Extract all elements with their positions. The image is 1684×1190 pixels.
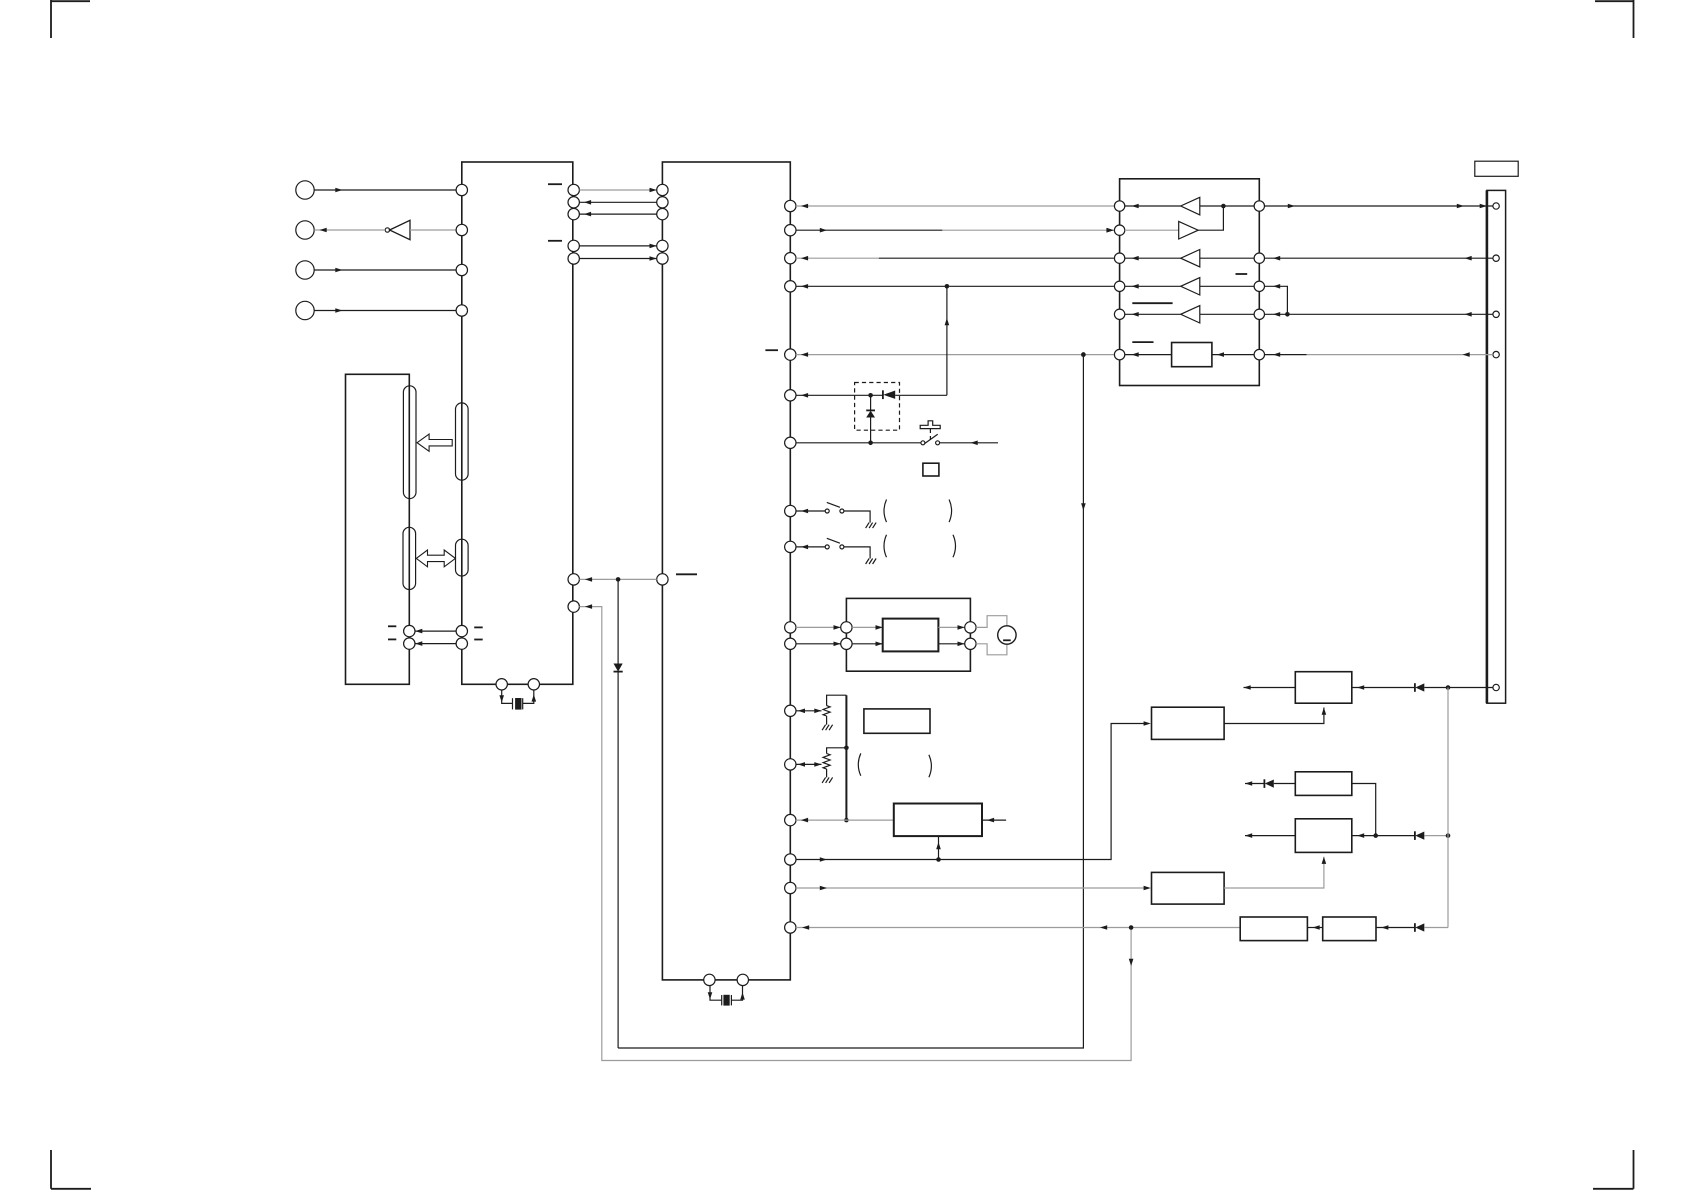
IC1 pin right 6 xyxy=(568,574,579,585)
wire row Q xyxy=(796,886,1151,891)
B4-B5 wire xyxy=(1307,925,1322,930)
diode D1 xyxy=(883,390,947,399)
IC2 xyxy=(662,162,790,980)
crop mark bottom-left xyxy=(51,1150,91,1189)
IC2 pin right 14 xyxy=(785,814,796,825)
IC2 pin right 15 xyxy=(785,854,796,865)
box C1 xyxy=(1152,707,1225,739)
RV1 top wire xyxy=(827,695,847,705)
cap mark left a xyxy=(388,625,396,627)
C1 out wire xyxy=(1224,708,1326,724)
bus pill A1 xyxy=(403,386,416,499)
connector pin J2 xyxy=(296,221,314,239)
IC3 pin L3 xyxy=(1114,253,1124,263)
block arrow double xyxy=(416,550,455,567)
wire row C to IC3 xyxy=(796,256,1114,261)
wire cap row2 xyxy=(415,641,456,646)
pin label mark long xyxy=(1132,302,1172,304)
wire cap row1 xyxy=(415,629,456,634)
switch S2 xyxy=(825,502,844,513)
bus pill B1 xyxy=(456,403,469,480)
wire J1 to IC1 xyxy=(314,188,456,193)
wire inverter to J2 xyxy=(314,228,385,233)
connector pin J1 xyxy=(296,181,314,199)
IC2 pin right 1 xyxy=(785,200,796,211)
wire R4 to CN2 xyxy=(1265,312,1493,317)
motor box pin in 1 xyxy=(841,622,852,633)
wire row G xyxy=(796,393,883,398)
IC2 pin right 6 xyxy=(785,390,796,401)
IC3 pin L5 xyxy=(1114,309,1124,319)
motor M1 xyxy=(998,626,1016,644)
IC3 pin L6 xyxy=(1114,349,1124,359)
switch S1 xyxy=(921,434,940,445)
paren right RV2 xyxy=(929,755,932,778)
level shift box U xyxy=(1125,343,1254,367)
IC2 pin right 13 xyxy=(785,759,796,770)
IC2 pin right 7 xyxy=(785,437,796,448)
motor driver outer box xyxy=(846,598,970,671)
diode D7 xyxy=(614,579,623,1048)
wire IC1-IC2 row1 xyxy=(579,188,656,193)
IC3 xyxy=(1120,179,1260,386)
IC2 pin right 3 xyxy=(785,253,796,264)
IC2 pin right 16 xyxy=(785,882,796,893)
wire row F to IC3 xyxy=(796,352,1114,357)
wire R3 bend xyxy=(1265,284,1288,314)
RV2 top wire xyxy=(827,748,847,754)
paren right S3 xyxy=(953,535,956,558)
diode D5 xyxy=(1415,831,1450,840)
B2 right wire xyxy=(1352,784,1376,836)
crystal X2 wires xyxy=(708,986,745,1001)
box B2 xyxy=(1295,772,1352,796)
motor box pin in 2 xyxy=(841,638,852,649)
ground RV2 xyxy=(822,777,833,783)
IC1 bottom pin 1 xyxy=(496,679,507,690)
wire row J xyxy=(796,545,825,550)
buffer T1 xyxy=(1125,197,1254,215)
IC2 pin right 5 xyxy=(785,349,796,360)
box B5 xyxy=(1323,917,1376,941)
wire row H xyxy=(796,442,921,444)
wire row P xyxy=(796,721,1151,862)
wire J4 to IC1 xyxy=(314,308,456,313)
IC1 pin right 2 xyxy=(568,197,579,208)
B1 in wire xyxy=(1352,685,1415,690)
cap mark left b xyxy=(388,638,396,640)
pin label mark xyxy=(1132,341,1153,343)
crop mark top-right xyxy=(1595,0,1634,38)
box E xyxy=(894,804,982,837)
motor driver IC xyxy=(883,619,939,652)
crop mark bottom-right xyxy=(1593,1150,1634,1189)
pin label mark xyxy=(548,183,562,185)
inverter U4 xyxy=(385,220,410,239)
IC3 pin L1 xyxy=(1114,201,1124,211)
crystal X1 wires xyxy=(499,690,536,703)
switch S3 xyxy=(825,538,844,549)
connector pin J3 xyxy=(296,261,314,279)
crystal X2 xyxy=(722,995,732,1006)
box E bottom wire xyxy=(936,836,941,862)
wire row R xyxy=(796,925,1240,930)
diode D6 xyxy=(1415,923,1448,932)
IC2 pin right 17 xyxy=(785,922,796,933)
RV1 ground wire xyxy=(826,716,828,725)
test point square xyxy=(923,463,939,476)
trimmer RV1 xyxy=(823,706,830,716)
crystal X1 xyxy=(513,698,523,710)
IC2 pin right 8 xyxy=(785,505,796,516)
IC1 cap pin 1 xyxy=(456,625,467,636)
wire driver out 1 xyxy=(938,625,964,630)
wire R1 to CN2 xyxy=(1265,204,1493,209)
wire row O xyxy=(796,818,894,823)
IC2 pin right 2 xyxy=(785,225,796,236)
IC2 bottom pin 1 xyxy=(704,974,715,985)
IC2 bottom pin 2 xyxy=(737,974,748,985)
wire IC1-IC2 row5 xyxy=(579,256,656,261)
pin label mark xyxy=(676,573,697,575)
wire row B to IC3 xyxy=(796,228,1114,233)
wire to driver 1 xyxy=(852,625,883,630)
IC1 pin left 4 xyxy=(456,305,467,316)
box D xyxy=(864,709,930,733)
boxA cap pin 1 xyxy=(404,625,415,636)
IC2 pin right 10 xyxy=(785,622,796,633)
IC1 bottom pin 2 xyxy=(528,679,539,690)
IC3 pin L2 xyxy=(1114,225,1124,235)
CN2 pin 3 xyxy=(1493,311,1499,317)
trimmer RV2 xyxy=(823,754,830,770)
motor box pin out 1 xyxy=(965,622,976,633)
wire IC1-IC2 row4 xyxy=(579,244,656,249)
IC3 pin R4 xyxy=(1254,309,1264,319)
wire driver out 2 xyxy=(938,642,964,647)
box E out wire xyxy=(982,818,1006,823)
IC3 pin R2 xyxy=(1254,253,1264,263)
IC2 pin left 4 xyxy=(657,240,668,251)
B3 out wire xyxy=(1245,833,1295,838)
IC2 pin right 4 xyxy=(785,281,796,292)
ground S3 xyxy=(866,559,877,565)
wire S2 to ground xyxy=(844,511,870,523)
wire IC1 to inverter xyxy=(410,229,456,231)
wire IC2-IC1 row2 xyxy=(579,200,656,205)
IC1 cap pin 2 xyxy=(456,638,467,649)
wire R2 to CN2 xyxy=(1265,256,1493,261)
IC1 pin right 7 xyxy=(568,601,579,612)
ground RV1 xyxy=(822,725,833,731)
IC2 pin right 11 xyxy=(785,638,796,649)
IC3 pin R1 xyxy=(1254,201,1264,211)
RV2 ground wire xyxy=(826,769,828,777)
cap mark right a xyxy=(474,626,483,628)
wire S1 out xyxy=(940,441,998,446)
wire J3 to IC1 xyxy=(314,268,456,273)
B3 in wire xyxy=(1352,833,1415,838)
pin label mark xyxy=(548,240,562,242)
motor wiring xyxy=(976,616,1007,655)
buffer T5 xyxy=(1125,306,1254,323)
IC2 pin left 6 xyxy=(657,574,668,585)
CN2 pin 5 xyxy=(1493,684,1499,690)
paren left RV2 xyxy=(858,753,861,775)
box C2 xyxy=(1152,872,1225,904)
wire row N xyxy=(796,762,822,767)
block arrow left xyxy=(417,434,452,451)
CN2 pin 4 xyxy=(1493,351,1499,357)
paren right S2 xyxy=(949,500,952,523)
B5 in wire xyxy=(1376,925,1415,930)
IC3 pin R5 xyxy=(1254,349,1264,359)
ground S2 xyxy=(866,523,877,529)
IC2 pin left 2 xyxy=(657,197,668,208)
wire row A to IC3 xyxy=(796,204,1114,209)
connector pin J4 xyxy=(296,301,314,319)
wire row M xyxy=(796,709,822,714)
buffer T2 xyxy=(1106,206,1223,239)
motor box pin out 2 xyxy=(965,638,976,649)
buffer T3 xyxy=(1125,250,1254,267)
IC1 pin right 3 xyxy=(568,208,579,219)
IC1 pin right 1 xyxy=(568,184,579,195)
B1 out wire xyxy=(1244,685,1296,690)
paren left S3 xyxy=(884,535,887,558)
wire IC1-IC2 sense xyxy=(579,577,656,582)
bus pill A2 xyxy=(403,527,416,589)
IC2 pin left 5 xyxy=(657,253,668,264)
connector CN2 xyxy=(1487,190,1506,703)
IC2 pin right 9 xyxy=(785,541,796,552)
pin label mark xyxy=(1236,273,1248,275)
wire reset branch xyxy=(945,286,950,395)
bus pill B2 xyxy=(456,539,469,576)
wire R5 to CN2 xyxy=(1265,352,1493,357)
IC1 pin left 1 xyxy=(456,184,467,195)
box B1 xyxy=(1295,672,1352,704)
CN2 pin 1 xyxy=(1493,203,1499,209)
boxA cap pin 2 xyxy=(404,638,415,649)
wire row K in xyxy=(796,625,841,630)
IC2 pin left 3 xyxy=(657,208,668,219)
IC1 xyxy=(462,162,573,684)
IC1 pin right 4 xyxy=(568,240,579,251)
box B4 xyxy=(1240,917,1307,941)
buffer T4 xyxy=(1125,278,1254,295)
diode D2 xyxy=(866,395,875,445)
diode D3 xyxy=(1415,683,1493,692)
label box xyxy=(1475,161,1518,176)
IC1 pin right 5 xyxy=(568,253,579,264)
pushbutton cap S1 xyxy=(920,421,940,440)
IC1 pin left 3 xyxy=(456,264,467,275)
wire ground bus bottom xyxy=(618,352,1086,1048)
protection dashed box xyxy=(855,383,900,431)
wire IC2-IC1 row3 xyxy=(579,212,656,217)
IC2 pin right 12 xyxy=(785,705,796,716)
diode D4 xyxy=(1245,779,1295,788)
pin label mark xyxy=(765,349,778,351)
IC3 pin L4 xyxy=(1114,281,1124,291)
IC3 pin R3 xyxy=(1254,281,1264,291)
CN2 pin 2 xyxy=(1493,255,1499,261)
C2 out wire xyxy=(1224,857,1326,888)
servo bias bus xyxy=(844,695,849,822)
cap mark right b xyxy=(474,639,483,641)
wire row D to IC3 xyxy=(796,284,1114,289)
wire IC1 pin7 down xyxy=(579,604,1133,1060)
crop mark top-left xyxy=(51,0,90,38)
wire row L in xyxy=(796,642,841,647)
paren left S2 xyxy=(884,500,887,523)
wire S3 to ground xyxy=(844,547,870,559)
IC2 pin left 1 xyxy=(657,184,668,195)
mechanism box A xyxy=(346,374,410,684)
IC1 pin left 2 xyxy=(456,224,467,235)
wire row I xyxy=(796,509,825,514)
box B3 xyxy=(1295,819,1352,853)
power sense bus xyxy=(1447,688,1449,928)
wire to driver 2 xyxy=(852,642,883,647)
